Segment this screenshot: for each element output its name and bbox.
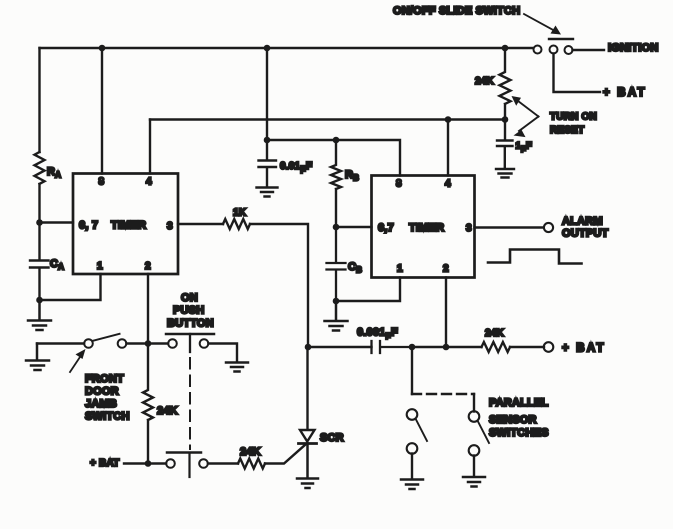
svg-text:ON/OFF SLIDE SWITCH: ON/OFF SLIDE SWITCH bbox=[393, 5, 520, 17]
node rail-pin8 junction bbox=[99, 45, 106, 52]
wire sensor1 to ground bbox=[411, 454, 413, 480]
ground below CB bbox=[325, 301, 348, 331]
svg-text:TIMER: TIMER bbox=[409, 222, 444, 234]
switch sensor 2 bottom contact bbox=[469, 445, 480, 456]
node SCR anode junction bbox=[305, 344, 312, 351]
wire arrow to jamb switch bbox=[70, 354, 82, 372]
ground sensor switch 2 bbox=[463, 477, 485, 487]
svg-text:+ BAT: + BAT bbox=[603, 87, 647, 99]
ground push button bbox=[226, 363, 248, 372]
resistor RB bbox=[331, 140, 341, 227]
svg-text:SENSOR: SENSOR bbox=[489, 414, 537, 426]
resistor 24K mid bbox=[143, 344, 153, 464]
wire RA to node 6,7 bbox=[38, 184, 40, 223]
node rail-0.01uF junction bbox=[264, 45, 271, 52]
resistor 24K gate bbox=[238, 459, 265, 469]
node Vcc branch junction bbox=[264, 137, 271, 144]
node 24K-bat junction bbox=[145, 460, 152, 467]
wire timer1 pin4 up bbox=[149, 120, 151, 174]
wire timer2 pin2 down bbox=[445, 278, 447, 348]
resistor 24K right bbox=[482, 342, 511, 352]
svg-text:24K: 24K bbox=[485, 328, 505, 339]
wire 0.01uF from rail bbox=[266, 48, 268, 160]
capacitor CB bbox=[327, 227, 346, 301]
op-amp U2 timer2 box bbox=[372, 176, 475, 278]
svg-text:1: 1 bbox=[397, 264, 403, 275]
wire timer2 pin1 down and left bbox=[336, 278, 400, 302]
svg-text:+ BAT: + BAT bbox=[90, 458, 119, 469]
wire sensor2 to ground bbox=[473, 456, 475, 477]
svg-text:TURN ON: TURN ON bbox=[550, 112, 597, 123]
svg-text:+ BAT: + BAT bbox=[562, 343, 606, 355]
switch contact middle bbox=[550, 46, 558, 54]
svg-text:24K: 24K bbox=[475, 76, 495, 87]
svg-text:1μF: 1μF bbox=[516, 141, 533, 153]
node pin2-bat junction bbox=[443, 344, 450, 351]
svg-text:24K: 24K bbox=[157, 405, 178, 417]
wire timer1 pin3 output bbox=[178, 223, 223, 225]
svg-text:4: 4 bbox=[445, 179, 451, 190]
svg-text:JAMB: JAMB bbox=[85, 398, 117, 410]
wire timer2 pin3 output bbox=[475, 226, 544, 228]
wire left vertical from rail to RA bbox=[38, 48, 40, 152]
switch push button top right contact bbox=[200, 339, 209, 348]
svg-text:6,7: 6,7 bbox=[378, 222, 394, 234]
wire arrow to slide switch bbox=[524, 14, 555, 31]
wire push button to ground bbox=[209, 344, 238, 363]
node reset-pin4 timer2 junction bbox=[445, 116, 452, 123]
wire 24K to +bat terminal bbox=[510, 346, 544, 348]
switch sensor 1 arm bbox=[416, 420, 427, 442]
svg-text:SWITCH: SWITCH bbox=[85, 411, 130, 423]
wire SCR node to 0.001uF bbox=[308, 346, 372, 348]
resistor 1K bbox=[223, 219, 250, 229]
svg-text:1: 1 bbox=[97, 261, 103, 272]
wire node to timer2 pin 6,7 bbox=[336, 226, 372, 228]
ground below 0.01uF bbox=[257, 188, 278, 197]
wire Vcc branch to timer2 pin8 bbox=[267, 140, 400, 176]
transistor SCR bbox=[306, 347, 308, 430]
svg-text:DOOR: DOOR bbox=[85, 386, 119, 398]
node CB/pin1 junction bbox=[333, 298, 340, 305]
svg-text:IGNITION: IGNITION bbox=[608, 42, 659, 54]
svg-text:0.01μF: 0.01μF bbox=[280, 161, 312, 173]
node alarm output terminal bbox=[544, 223, 553, 232]
svg-text:RA: RA bbox=[47, 166, 61, 180]
svg-text:6, 7: 6, 7 bbox=[79, 220, 98, 232]
capacitor 0.01uF bbox=[259, 161, 277, 188]
switch push button top left contact bbox=[168, 339, 177, 348]
svg-text:TIMER: TIMER bbox=[111, 220, 146, 232]
svg-text:CB: CB bbox=[348, 261, 362, 275]
svg-text:PUSH: PUSH bbox=[173, 305, 204, 317]
capacitor 1uF bbox=[497, 141, 513, 169]
svg-text:3: 3 bbox=[466, 223, 472, 234]
wire arrow to capacitor bbox=[519, 117, 539, 132]
svg-text:RESET: RESET bbox=[550, 125, 584, 136]
switch sensor 1 top contact bbox=[407, 409, 418, 420]
svg-text:CA: CA bbox=[50, 258, 64, 272]
wire plunger stub below bbox=[188, 454, 190, 477]
wire timer1 pin8 to rail bbox=[101, 48, 103, 174]
capacitor CA bbox=[30, 223, 49, 301]
wire Vcc top rail bbox=[40, 47, 534, 49]
wire reset line to 24K node bbox=[150, 118, 505, 120]
switch push button bar top bbox=[166, 333, 214, 336]
wire arrow to resistor bbox=[516, 100, 539, 117]
svg-text:PARALLEL: PARALLEL bbox=[489, 397, 549, 409]
svg-text:FRONT: FRONT bbox=[85, 373, 124, 385]
svg-text:OUTPUT: OUTPUT bbox=[562, 228, 609, 240]
wire timer1 pin2 down bbox=[147, 274, 149, 344]
svg-text:2: 2 bbox=[443, 264, 449, 275]
switch jamb right contact bbox=[118, 339, 127, 348]
wire node to timer1 pin 6,7 bbox=[40, 221, 74, 223]
node RB/CB junction bbox=[333, 224, 340, 231]
svg-text:8: 8 bbox=[99, 177, 105, 188]
wire dashed sensor link bbox=[412, 393, 474, 395]
switch push button bottom right contact bbox=[199, 459, 208, 468]
node pin2-jamb junction bbox=[145, 340, 152, 347]
switch slide bar bbox=[549, 38, 573, 40]
svg-text:RB: RB bbox=[345, 169, 359, 183]
op-amp U1 timer1 box bbox=[73, 174, 178, 275]
resistor 24K turn-on bbox=[500, 48, 511, 140]
switch sensor 2 arm bbox=[478, 422, 489, 444]
wire cap to pin2 node bbox=[412, 346, 482, 348]
wire to 24K gate resistor bbox=[208, 462, 238, 464]
svg-text:BUTTON: BUTTON bbox=[167, 318, 214, 330]
svg-text:SCR: SCR bbox=[320, 432, 344, 444]
switch sensor 2 top contact bbox=[469, 411, 480, 422]
capacitor 0.001uF bbox=[372, 341, 413, 353]
switch jamb left contact bbox=[84, 339, 93, 348]
switch contact right bbox=[565, 46, 573, 54]
switch push button bar bottom bbox=[167, 451, 201, 454]
node rail-24K junction bbox=[502, 45, 509, 52]
wire sensor node down bbox=[411, 347, 413, 394]
node CA/pin1 junction bbox=[36, 297, 43, 304]
svg-text:SWITCHES: SWITCHES bbox=[489, 427, 549, 439]
ground below CA bbox=[28, 300, 51, 330]
wire ground to jamb switch bbox=[37, 342, 84, 344]
wire timer2 pin4 up to reset line bbox=[447, 120, 449, 176]
ground sensor switch 1 bbox=[401, 480, 423, 490]
svg-text:8: 8 bbox=[396, 179, 402, 190]
switch push button bottom left contact bbox=[166, 459, 175, 468]
wire 24K to SCR gate bbox=[265, 445, 306, 464]
wire +bat to push button bbox=[124, 462, 166, 464]
ground jamb switch bbox=[26, 344, 49, 371]
wire timer1 pin1 down and left bbox=[40, 274, 101, 300]
svg-text:1K: 1K bbox=[233, 208, 247, 219]
switch contact left bbox=[534, 46, 542, 54]
ground below SCR bbox=[297, 444, 318, 489]
svg-text:4: 4 bbox=[146, 177, 152, 188]
switch sensor 1 bottom contact bbox=[407, 443, 418, 454]
wire jamb to pin2 node bbox=[127, 342, 169, 344]
wire push button plunger dashed bbox=[189, 334, 191, 352]
wire 1K to SCR anode node bbox=[250, 224, 308, 347]
ground below 1uF bbox=[496, 169, 514, 178]
svg-text:3: 3 bbox=[167, 221, 173, 232]
svg-text:24K: 24K bbox=[240, 446, 261, 458]
wire +bat lead from middle contact bbox=[554, 54, 601, 93]
node RA/CA junction bbox=[36, 219, 43, 226]
svg-text:ALARM: ALARM bbox=[562, 216, 603, 228]
node RB top junction bbox=[333, 137, 340, 144]
waveform alarm output pulse bbox=[488, 250, 582, 264]
wire to sensor switch 2 bbox=[473, 394, 475, 412]
svg-text:0.001μF: 0.001μF bbox=[357, 327, 398, 340]
svg-text:2: 2 bbox=[145, 261, 151, 272]
wire ignition lead bbox=[573, 49, 605, 51]
node sensor junction bbox=[409, 344, 416, 351]
resistor RA bbox=[35, 152, 45, 184]
node +bat terminal bbox=[544, 342, 554, 352]
svg-text:ON: ON bbox=[181, 292, 198, 304]
switch jamb arm bbox=[93, 334, 120, 341]
node reset-24K junction bbox=[502, 116, 509, 123]
